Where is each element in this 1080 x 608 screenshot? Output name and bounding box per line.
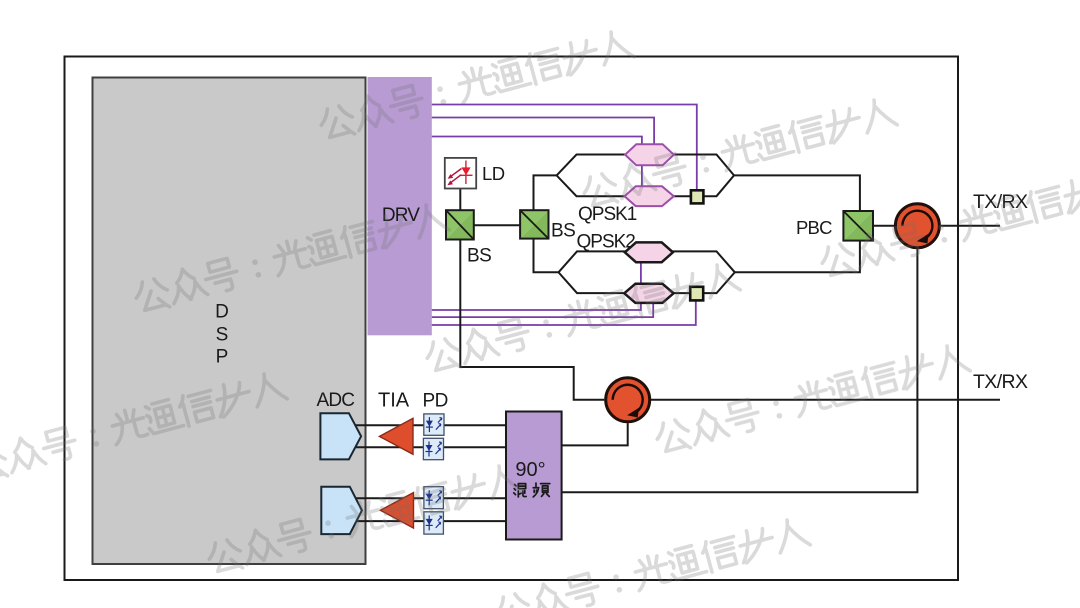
DSP label [215, 302, 229, 368]
wire drv-qpsk2 hex4 a [432, 303, 641, 310]
wire circulator2 bottom to mixer [562, 423, 628, 445]
svg-text:PBC: PBC [796, 217, 832, 238]
watermark run I [0, 369, 288, 484]
DRV block [368, 77, 432, 335]
wire BS2 to QPSK2 input [534, 239, 559, 273]
wire hex3-hex4 link [640, 262, 642, 284]
ADC pentagon 1 [320, 413, 361, 459]
wire hex1-hex2 link [641, 165, 643, 186]
DSP block [93, 78, 366, 565]
wire circulator2 to TX/RX2 [651, 399, 1000, 401]
svg-text:TX/RX: TX/RX [973, 371, 1028, 393]
TIA amplifier 2 [380, 493, 413, 528]
svg-text:90°: 90° [515, 459, 545, 481]
PD output lines row1 [352, 424, 506, 426]
wire circulator1 bottom to mixer [562, 249, 918, 492]
watermark run J [818, 165, 1080, 280]
wire circulator1 to TX/RX1 [941, 225, 1000, 227]
BS2 beam splitter [520, 210, 548, 238]
watermark run A [317, 27, 635, 142]
QPSK2 MZ outline [559, 251, 735, 293]
svg-text:TIA: TIA [378, 390, 410, 412]
svg-text:BS: BS [551, 221, 575, 242]
wire BS1 to BS2 [474, 224, 520, 226]
PD photodiode 2 [423, 438, 443, 459]
black optical wires [352, 155, 1000, 522]
QPSK1 MZ outline [557, 155, 734, 197]
PD output lines row2 [352, 497, 506, 499]
wire QPSK1 out to PBC [734, 175, 860, 211]
svg-text:ADC: ADC [317, 390, 355, 411]
wire drv-qpsk2 square [432, 300, 696, 325]
circulator 1 [895, 204, 939, 248]
wire drv-qpsk2 hex4 b [432, 303, 653, 317]
PD photodiode 1 [424, 414, 444, 435]
svg-text:P: P [216, 347, 229, 368]
90° hybrid mixer box [506, 412, 562, 540]
BS1 beam splitter [446, 210, 474, 239]
QPSK2 phase square [690, 287, 703, 301]
QPSK1 modulator hexagon B [625, 186, 674, 206]
QPSK2 modulator hexagon B [624, 284, 673, 303]
watermark run G [653, 341, 971, 456]
QPSK1 phase square [691, 190, 704, 203]
watermark run M [423, 260, 741, 375]
TIA amplifier 1 [379, 418, 413, 454]
wire LD to BS1 [459, 189, 461, 211]
wire drv-qpsk1 hex1 b [432, 137, 642, 145]
svg-text:QPSK1: QPSK1 [578, 204, 637, 225]
circulator 2 [606, 378, 650, 422]
watermark run D [580, 95, 898, 210]
LD box [445, 158, 476, 189]
outer module box [65, 57, 959, 581]
QPSK1 modulator hexagon A [625, 144, 674, 165]
wire BS1 to circulator2 (LO path) [460, 240, 604, 400]
mixer label 混频 (drawn glyphs) [514, 483, 550, 497]
svg-text:BS: BS [467, 246, 491, 267]
svg-text:PD: PD [423, 391, 448, 412]
wire BS2 to QPSK1 input [534, 175, 557, 210]
svg-text:S: S [216, 325, 229, 346]
PBC polarization combiner [843, 211, 873, 241]
purple drive wires (top, to QPSK1) [432, 105, 697, 326]
svg-text:D: D [215, 302, 229, 323]
svg-text:LD: LD [482, 163, 505, 184]
ADC pentagon 2 [321, 487, 362, 534]
laser diode symbol [447, 161, 472, 186]
watermark run K [205, 461, 523, 576]
wire QPSK2 out to PBC [735, 241, 860, 273]
PD photodiode 3 [424, 487, 444, 509]
watermark run E [493, 515, 811, 608]
QPSK2 modulator hexagon A [625, 242, 673, 262]
wire PBC to circulator1 [873, 225, 894, 227]
PD photodiode 4 [424, 512, 444, 534]
watermark run C [132, 200, 450, 315]
wire drv-qpsk1 hex1 a [432, 118, 654, 145]
wire drv-qpsk1 square [432, 105, 697, 191]
